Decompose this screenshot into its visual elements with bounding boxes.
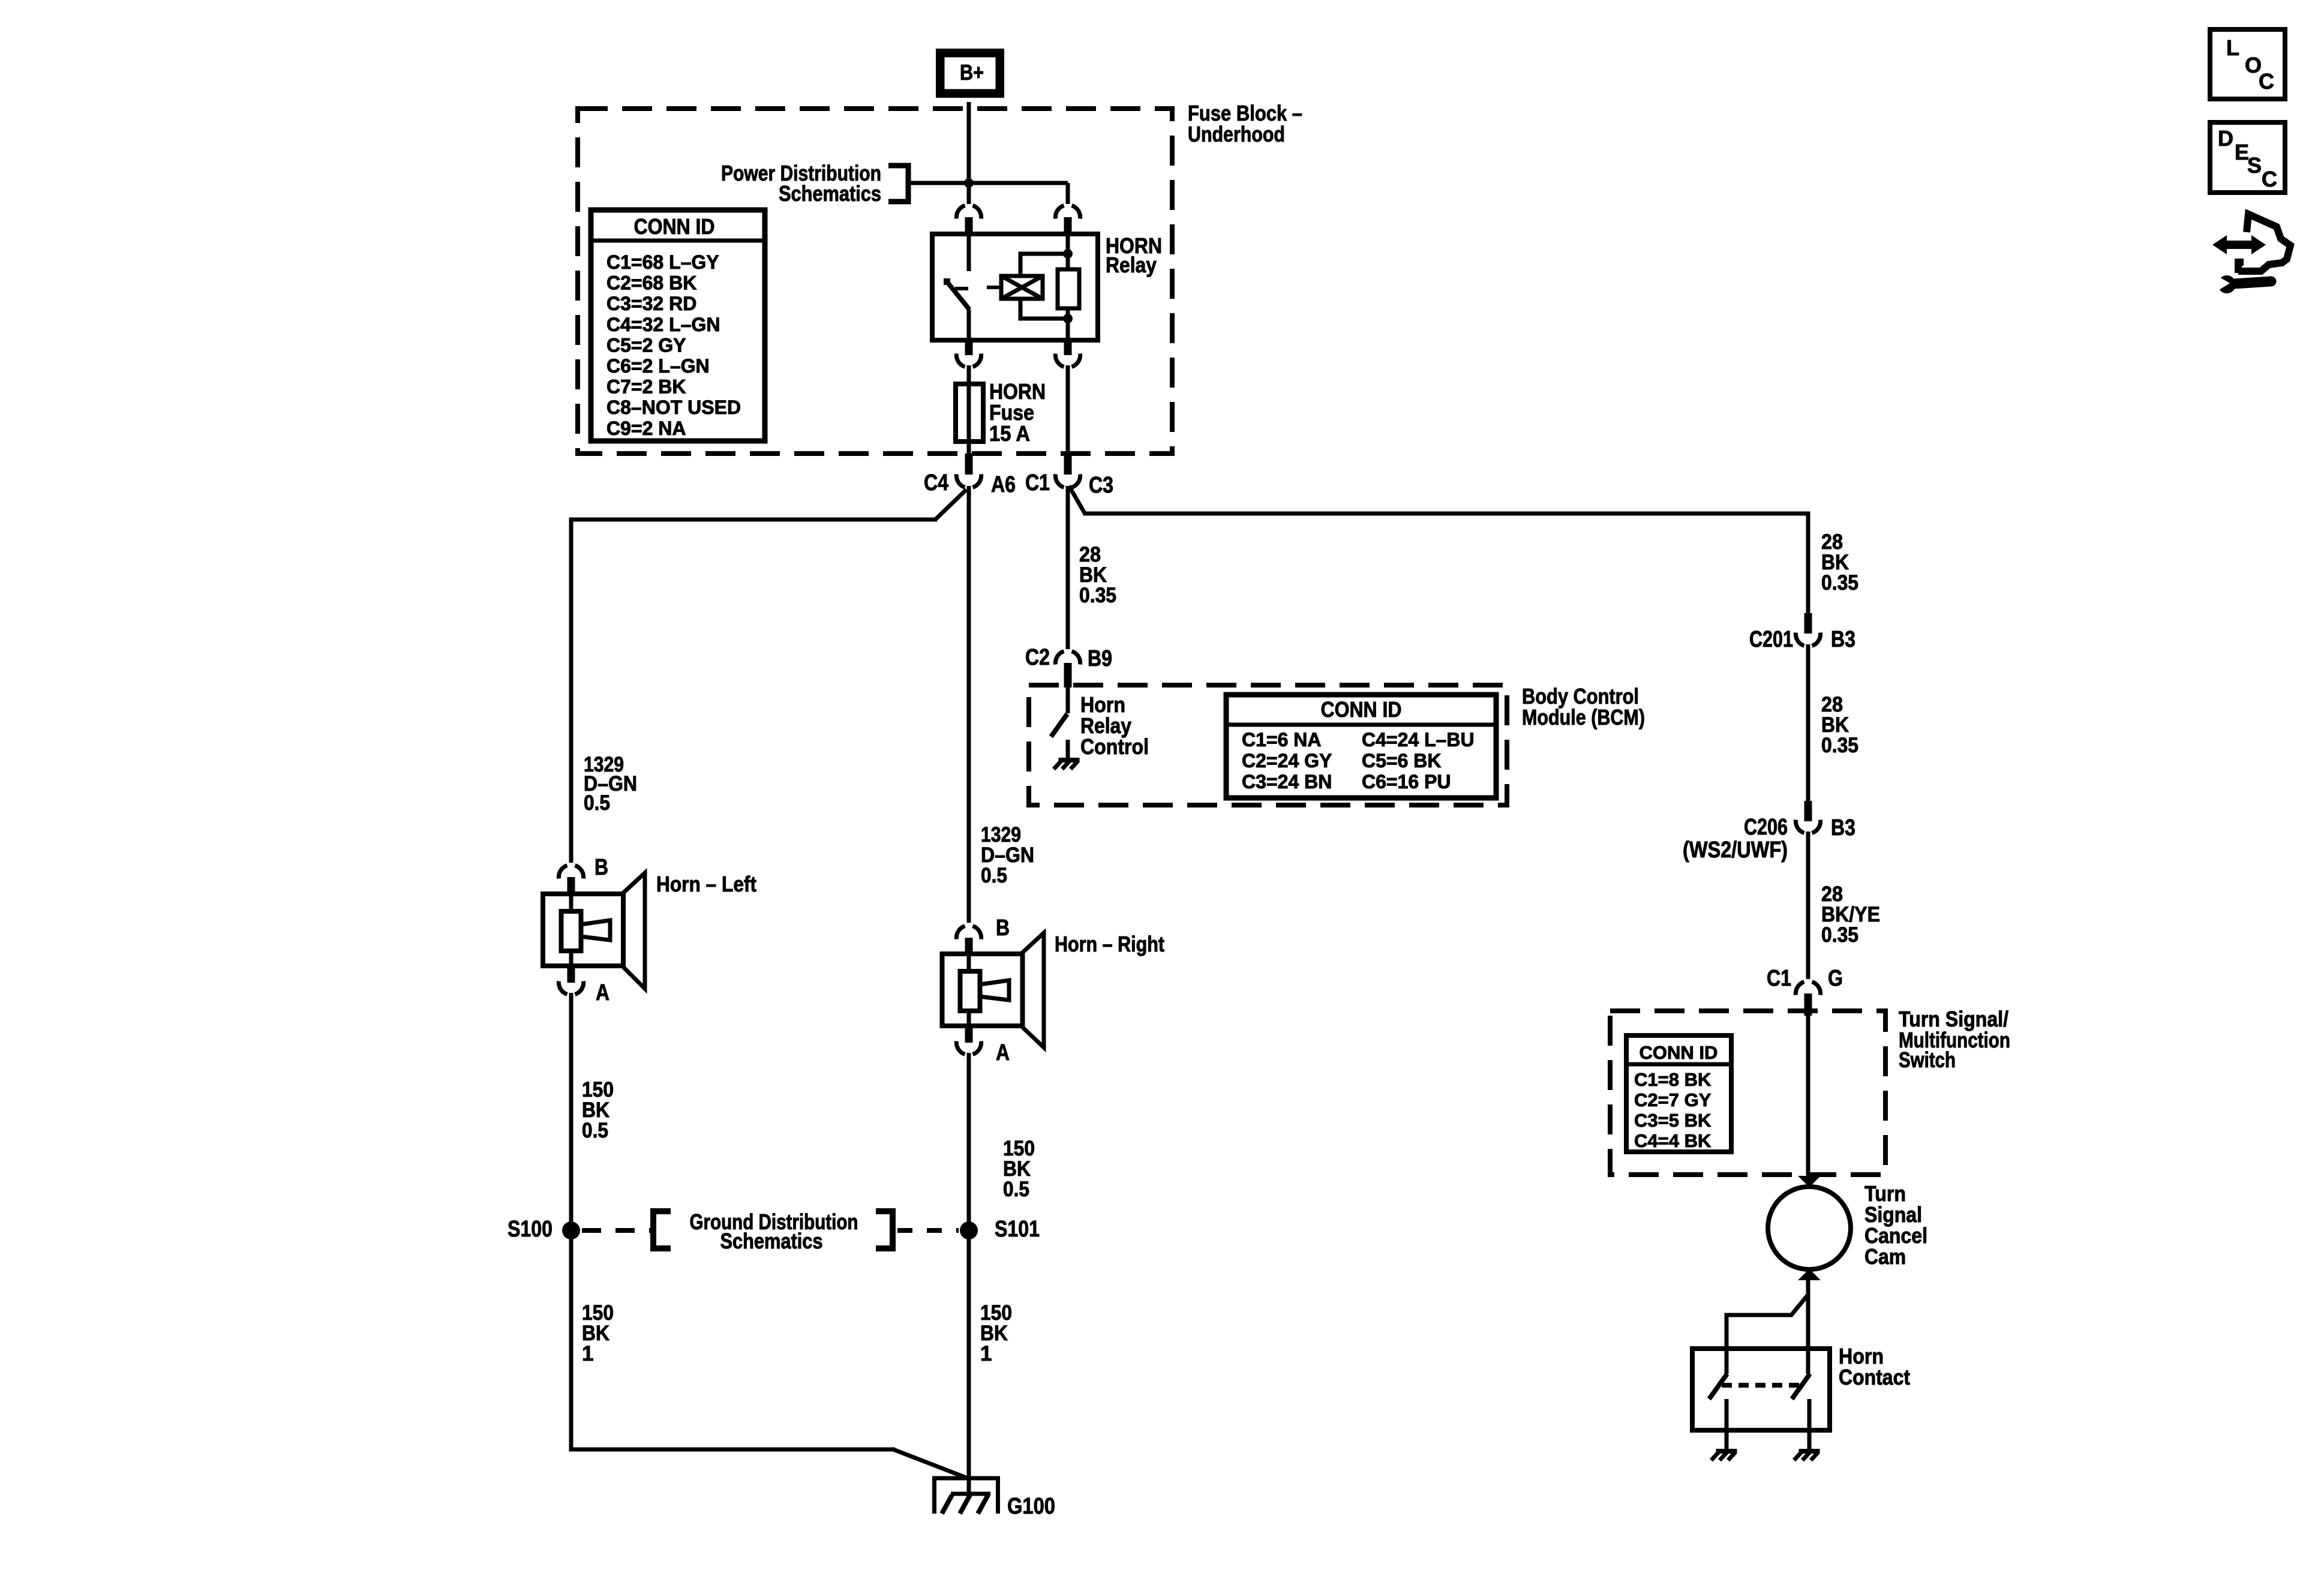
svg-text:C3: C3	[1089, 473, 1113, 498]
svg-text:L: L	[2226, 35, 2239, 60]
svg-text:S100: S100	[508, 1217, 553, 1242]
svg-text:C4=4 BK: C4=4 BK	[1634, 1130, 1712, 1151]
svg-text:1: 1	[582, 1342, 593, 1365]
svg-text:A6: A6	[991, 472, 1016, 497]
svg-text:B: B	[996, 915, 1010, 941]
svg-text:B3: B3	[1831, 627, 1855, 652]
svg-text:C7=2 BK: C7=2 BK	[606, 376, 686, 398]
svg-text:CONN ID: CONN ID	[1640, 1042, 1718, 1063]
svg-text:C3=32 RD: C3=32 RD	[606, 293, 696, 314]
svg-text:C2=24 GY: C2=24 GY	[1242, 750, 1332, 772]
svg-text:C9=2 NA: C9=2 NA	[606, 418, 686, 439]
svg-text:C2=68 BK: C2=68 BK	[606, 272, 696, 294]
svg-text:C3=5 BK: C3=5 BK	[1634, 1110, 1712, 1131]
svg-text:0.5: 0.5	[981, 864, 1007, 887]
svg-text:C1=68 L–GY: C1=68 L–GY	[606, 251, 719, 273]
svg-text:G: G	[1828, 966, 1843, 991]
svg-text:1: 1	[980, 1342, 992, 1365]
svg-text:A: A	[996, 1040, 1010, 1065]
svg-text:G100: G100	[1007, 1494, 1055, 1519]
svg-text:0.35: 0.35	[1821, 923, 1858, 947]
svg-text:C1=6 NA: C1=6 NA	[1242, 729, 1322, 751]
svg-text:0.35: 0.35	[1821, 571, 1858, 595]
svg-text:C6=2 L–GN: C6=2 L–GN	[606, 355, 710, 377]
svg-text:C1=8 BK: C1=8 BK	[1634, 1069, 1712, 1090]
svg-text:Underhood: Underhood	[1188, 122, 1285, 146]
svg-text:A: A	[596, 980, 609, 1005]
svg-text:C4: C4	[924, 470, 948, 496]
svg-text:Horn – Right: Horn – Right	[1055, 932, 1164, 956]
svg-text:B: B	[594, 855, 608, 880]
svg-text:15 A: 15 A	[989, 421, 1030, 446]
svg-text:C1: C1	[1025, 470, 1050, 496]
svg-text:Control: Control	[1080, 734, 1149, 759]
svg-text:CONN ID: CONN ID	[634, 214, 715, 239]
svg-text:Switch: Switch	[1899, 1047, 1956, 1072]
svg-text:CONN ID: CONN ID	[1321, 697, 1402, 722]
svg-text:B3: B3	[1831, 815, 1855, 840]
svg-text:B9: B9	[1088, 646, 1112, 671]
svg-text:Cam: Cam	[1864, 1244, 1906, 1269]
svg-text:Schematics: Schematics	[779, 181, 881, 206]
svg-text:C1: C1	[1767, 966, 1791, 991]
svg-text:C3=24 BN: C3=24 BN	[1242, 771, 1332, 792]
svg-text:D: D	[2218, 126, 2233, 151]
svg-text:C2: C2	[1025, 645, 1050, 670]
svg-text:0.5: 0.5	[582, 1119, 608, 1142]
svg-text:0.5: 0.5	[584, 791, 610, 815]
svg-text:S: S	[2247, 153, 2262, 178]
svg-text:Horn – Left: Horn – Left	[656, 872, 756, 896]
svg-text:Contact: Contact	[1839, 1365, 1910, 1389]
svg-text:0.35: 0.35	[1079, 584, 1116, 607]
svg-text:B+: B+	[960, 60, 984, 85]
svg-text:C5=6 BK: C5=6 BK	[1362, 750, 1442, 772]
svg-text:C5=2 GY: C5=2 GY	[606, 334, 686, 356]
svg-text:C2=7 GY: C2=7 GY	[1634, 1089, 1712, 1110]
svg-text:0.35: 0.35	[1821, 734, 1858, 757]
svg-text:Relay: Relay	[1106, 253, 1157, 277]
svg-text:C206: C206	[1744, 815, 1788, 840]
svg-text:C8–NOT USED: C8–NOT USED	[606, 397, 741, 418]
svg-text:Module (BCM): Module (BCM)	[1522, 705, 1645, 730]
svg-text:C: C	[2262, 167, 2277, 191]
svg-text:C201: C201	[1749, 627, 1793, 652]
svg-text:S101: S101	[995, 1217, 1040, 1242]
svg-text:C: C	[2259, 69, 2274, 94]
svg-text:C6=16 PU: C6=16 PU	[1362, 771, 1451, 792]
svg-text:Schematics: Schematics	[720, 1229, 823, 1253]
svg-text:0.5: 0.5	[1003, 1178, 1029, 1201]
svg-text:(WS2/UWF): (WS2/UWF)	[1683, 837, 1788, 863]
svg-text:C4=24 L–BU: C4=24 L–BU	[1362, 729, 1475, 751]
svg-text:C4=32 L–GN: C4=32 L–GN	[606, 314, 720, 335]
